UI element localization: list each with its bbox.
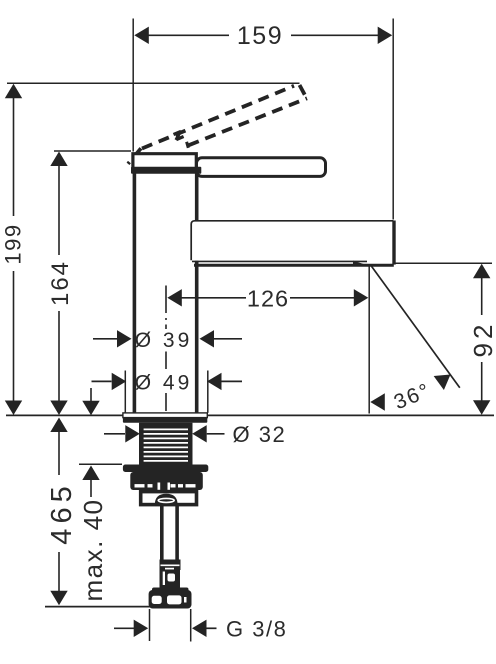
body column left edge xyxy=(133,172,137,413)
handle lever closed xyxy=(197,158,326,177)
spout xyxy=(191,221,393,260)
dimension 164 xyxy=(47,151,131,415)
mounting plane line xyxy=(6,414,494,416)
dimension diameter 49 xyxy=(92,371,243,413)
dimension diameter 32 xyxy=(104,422,286,447)
dimension 465 xyxy=(45,418,150,607)
dimension 126 xyxy=(167,285,368,311)
locknut xyxy=(130,472,203,490)
centerline xyxy=(165,286,167,412)
waste housing xyxy=(141,492,197,505)
svg-text:36°: 36° xyxy=(391,379,435,414)
lower hose segment xyxy=(160,570,181,588)
mounting flange xyxy=(123,465,208,473)
dimension 92 xyxy=(394,263,496,415)
body column right edge xyxy=(195,172,199,221)
threaded shank xyxy=(139,423,193,465)
collar band xyxy=(131,167,201,174)
angle 36 degrees xyxy=(369,265,460,415)
pop-up cup xyxy=(155,494,178,505)
svg-text:Ø 39: Ø 39 xyxy=(135,329,193,352)
svg-text:126: 126 xyxy=(247,285,289,311)
lever pivot jog xyxy=(174,131,184,140)
dimension 159 xyxy=(133,19,393,220)
dimension diameter 39 xyxy=(93,329,242,352)
coupling rings xyxy=(160,560,181,571)
dimension max 40 xyxy=(78,388,122,602)
svg-text:164: 164 xyxy=(47,260,74,306)
cartridge cap xyxy=(133,154,196,172)
dimension 199 xyxy=(1,83,300,415)
svg-text:465: 465 xyxy=(46,481,78,544)
dimension G 3/8 xyxy=(114,609,287,642)
tailpiece tube xyxy=(160,505,164,560)
svg-text:199: 199 xyxy=(1,223,26,264)
svg-text:max. 40: max. 40 xyxy=(78,499,108,602)
svg-text:Ø 32: Ø 32 xyxy=(233,422,287,447)
svg-text:G 3/8: G 3/8 xyxy=(226,616,287,641)
dashed lever (open position) xyxy=(128,85,307,164)
svg-text:Ø 49: Ø 49 xyxy=(135,372,193,395)
base plate xyxy=(123,413,207,418)
svg-text:159: 159 xyxy=(237,22,283,50)
svg-text:92: 92 xyxy=(468,321,496,358)
hose connector G3/8 xyxy=(152,588,189,594)
